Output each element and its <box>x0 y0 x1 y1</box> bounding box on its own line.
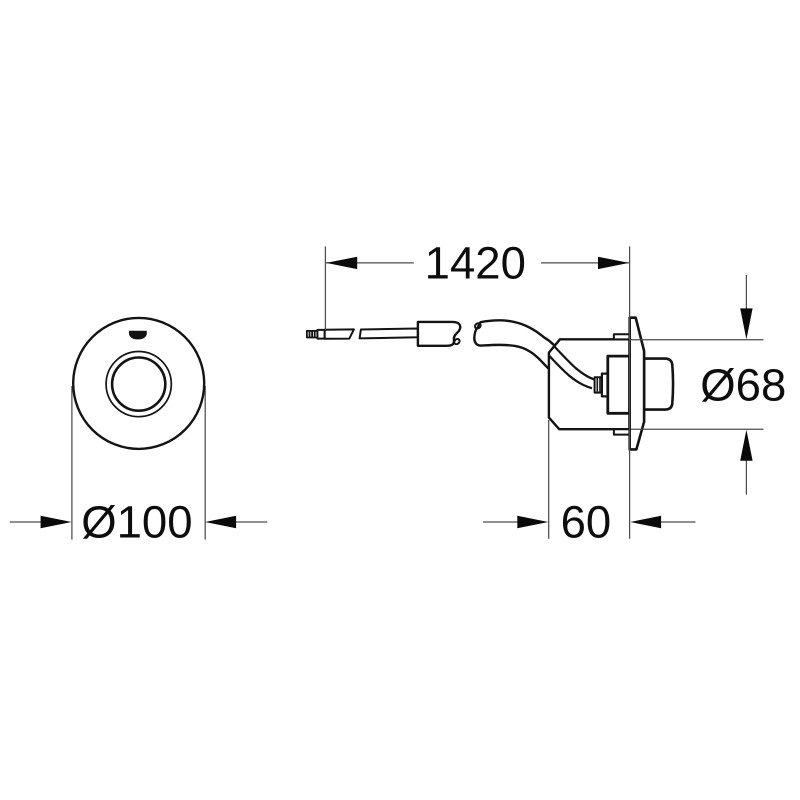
svg-text:60: 60 <box>561 497 612 548</box>
svg-text:Ø68: Ø68 <box>700 360 786 411</box>
svg-text:Ø100: Ø100 <box>81 497 192 548</box>
svg-text:1420: 1420 <box>425 237 526 288</box>
